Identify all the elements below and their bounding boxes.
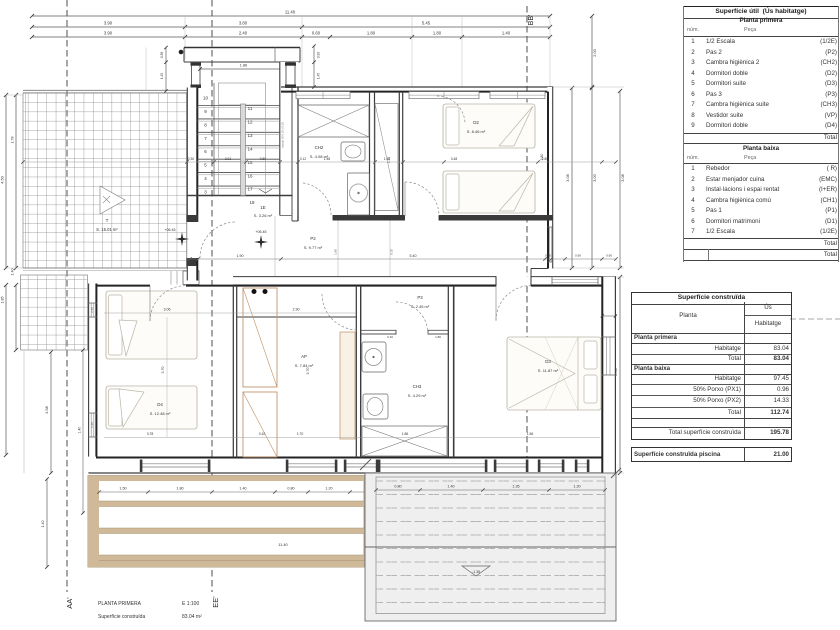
svg-text:3.80: 3.80 [239,21,248,26]
svg-text:D4: D4 [157,402,163,407]
svg-text:15: 15 [247,160,253,165]
svg-text:1.80: 1.80 [433,31,442,36]
svg-text:1.85: 1.85 [1,297,5,304]
svg-text:E 1:100: E 1:100 [182,601,199,607]
svg-text:0.10: 0.10 [259,432,266,436]
svg-text:1.40: 1.40 [502,31,511,36]
svg-text:1.45: 1.45 [317,73,321,79]
svg-text:3.90: 3.90 [104,21,113,26]
svg-text:1.56: 1.56 [527,432,534,436]
svg-text:CH2: CH2 [315,145,324,150]
svg-text:1.20: 1.20 [325,487,332,491]
svg-text:P3: P3 [417,295,423,300]
svg-text:AP: AP [301,354,307,359]
svg-text:1.40: 1.40 [78,427,82,434]
svg-text:3.70: 3.70 [306,368,310,375]
svg-text:1.80: 1.80 [367,31,376,36]
svg-text:4: 4 [204,176,207,181]
svg-text:11.40: 11.40 [278,542,288,547]
svg-text:1.50: 1.50 [119,487,126,491]
svg-text:3.06: 3.06 [164,308,171,312]
svg-text:+06.45: +06.45 [164,228,175,232]
svg-text:CH3: CH3 [413,384,422,389]
svg-text:3.70: 3.70 [161,367,165,374]
svg-text:1.80: 1.80 [176,487,183,491]
svg-text:17: 17 [247,187,253,192]
svg-text:6: 6 [204,149,207,154]
svg-text:0.38: 0.38 [160,52,164,58]
svg-text:2.30: 2.30 [90,307,94,313]
svg-text:1.40: 1.40 [41,521,45,528]
svg-text:5.45: 5.45 [422,21,431,26]
svg-text:S. 3.26 m²: S. 3.26 m² [254,213,273,218]
svg-text:3.48: 3.48 [451,157,458,161]
svg-text:1.20: 1.20 [573,485,580,489]
svg-text:S. 15.01 m²: S. 15.01 m² [96,227,118,232]
svg-text:3.01: 3.01 [225,157,232,161]
svg-text:S. 12.48 m²: S. 12.48 m² [150,411,171,416]
svg-text:0.90: 0.90 [317,52,321,58]
svg-text:0.30: 0.30 [188,157,195,161]
svg-text:D2: D2 [473,120,479,125]
svg-text:0.30: 0.30 [545,254,551,258]
svg-text:0.60: 0.60 [312,31,321,36]
svg-text:2.90: 2.90 [293,308,300,312]
svg-text:1.40: 1.40 [11,269,15,276]
svg-text:3.08: 3.08 [566,174,570,181]
svg-text:0.90: 0.90 [575,254,581,258]
svg-text:3: 3 [204,189,207,194]
svg-text:2.30: 2.30 [90,422,94,428]
svg-text:0.10: 0.10 [387,335,393,339]
svg-text:12: 12 [247,120,253,125]
svg-text:S. 4.08 m²: S. 4.08 m² [310,154,329,159]
svg-text:S. 2.45 m²: S. 2.45 m² [411,304,430,309]
svg-text:3.00: 3.00 [593,174,597,181]
svg-text:1.80: 1.80 [334,249,338,255]
svg-text:S. 4.29 m²: S. 4.29 m² [408,393,427,398]
svg-text:18: 18 [249,200,255,205]
svg-text:10: 10 [203,96,209,101]
svg-text:8: 8 [204,122,207,127]
svg-text:83.04 m²: 83.04 m² [182,614,202,620]
svg-text:T: T [106,218,109,223]
svg-text:14: 14 [247,146,253,151]
svg-text:AA': AA' [65,597,74,609]
svg-text:1.40: 1.40 [447,485,454,489]
svg-text:PLANTA PRIMERA: PLANTA PRIMERA [98,601,142,607]
svg-text:S. 8.46 m²: S. 8.46 m² [467,129,486,134]
svg-text:0.12: 0.12 [300,157,307,161]
svg-text:1.70: 1.70 [297,432,304,436]
svg-text:1.86: 1.86 [240,64,247,68]
svg-text:2.00: 2.00 [593,49,597,56]
svg-text:1.40: 1.40 [239,487,246,491]
svg-text:EE': EE' [211,596,220,608]
svg-text:11.40: 11.40 [285,10,296,15]
svg-text:P2: P2 [310,236,316,241]
svg-text:4.50: 4.50 [0,175,5,184]
svg-text:1.40: 1.40 [387,157,391,163]
svg-text:1.45: 1.45 [160,73,164,79]
svg-text:3.78: 3.78 [147,432,154,436]
svg-text:2.80: 2.80 [542,157,549,161]
svg-text:+06.45: +06.45 [255,230,266,234]
svg-text:S. 7.84 m²: S. 7.84 m² [295,363,314,368]
svg-text:1.90: 1.90 [237,254,244,258]
svg-text:4.58: 4.58 [45,406,49,413]
svg-text:1.86: 1.86 [402,432,409,436]
svg-text:escala 18 0.18 x 0.28: escala 18 0.18 x 0.28 [281,122,285,148]
svg-text:S. 11.87 m²: S. 11.87 m² [538,368,559,373]
svg-text:0.80: 0.80 [287,487,294,491]
svg-text:13: 13 [247,133,253,138]
svg-text:11: 11 [248,106,253,111]
svg-text:S. 9.77 m²: S. 9.77 m² [304,245,323,250]
svg-text:7: 7 [204,136,207,141]
svg-text:1E: 1E [260,205,265,210]
svg-text:0.90: 0.90 [606,254,612,258]
svg-text:1.35: 1.35 [512,485,519,489]
svg-text:3.90: 3.90 [104,31,113,36]
svg-text:-1.35: -1.35 [472,570,480,574]
svg-text:9: 9 [204,109,207,114]
svg-text:0.80: 0.80 [394,485,401,489]
svg-text:3.08: 3.08 [621,174,625,181]
svg-text:16: 16 [247,173,253,178]
svg-text:D3: D3 [545,359,551,364]
svg-text:1.80: 1.80 [435,335,441,339]
svg-text:0.10: 0.10 [390,249,394,255]
svg-text:0.80: 0.80 [260,157,267,161]
svg-text:Superfície construïda: Superfície construïda [98,614,145,620]
svg-text:5.40: 5.40 [410,254,417,258]
svg-text:2.40: 2.40 [239,31,248,36]
svg-text:1.78: 1.78 [11,137,15,144]
svg-text:5: 5 [204,163,207,168]
